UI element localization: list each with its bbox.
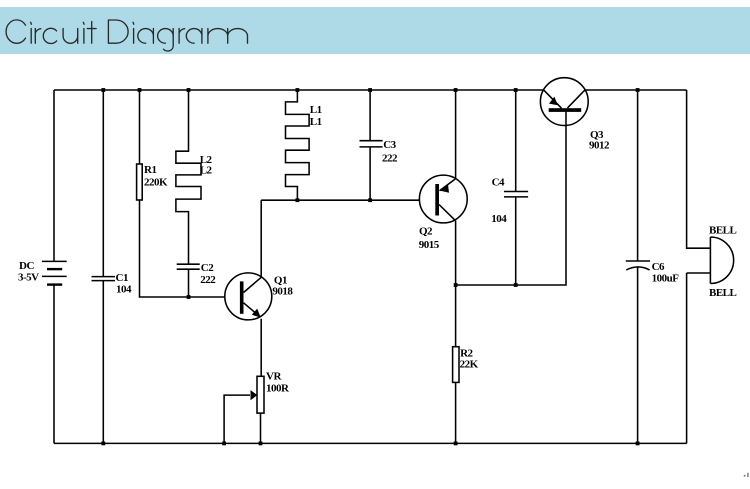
svg-text:220K: 220K [144, 177, 168, 189]
svg-text:R1: R1 [144, 164, 156, 176]
svg-text:222: 222 [382, 152, 398, 164]
svg-text:9015: 9015 [419, 239, 440, 251]
svg-text:100R: 100R [266, 382, 290, 394]
svg-text:Q2: Q2 [419, 226, 433, 238]
svg-text:VR: VR [266, 370, 282, 382]
svg-text:C1: C1 [116, 272, 128, 284]
svg-text:C3: C3 [383, 139, 396, 151]
svg-text:C6: C6 [652, 261, 665, 273]
svg-text:3-5V: 3-5V [18, 272, 39, 284]
svg-text:L2: L2 [200, 165, 213, 177]
svg-text:L1: L1 [310, 104, 322, 116]
svg-text:BELL: BELL [709, 225, 737, 237]
svg-text:L1: L1 [310, 116, 322, 128]
svg-text:104: 104 [116, 284, 132, 296]
svg-text:100uF: 100uF [652, 272, 680, 284]
svg-text:DC: DC [19, 260, 34, 272]
svg-text:C4: C4 [492, 177, 505, 189]
svg-text:22K: 22K [460, 359, 479, 371]
svg-text:C2: C2 [201, 262, 214, 274]
svg-text:104: 104 [491, 213, 507, 225]
svg-text:9018: 9018 [272, 286, 293, 298]
svg-text:R2: R2 [460, 347, 473, 359]
svg-text:9012: 9012 [589, 140, 610, 152]
svg-text:222: 222 [200, 274, 216, 286]
svg-text:BELL: BELL [709, 287, 737, 299]
